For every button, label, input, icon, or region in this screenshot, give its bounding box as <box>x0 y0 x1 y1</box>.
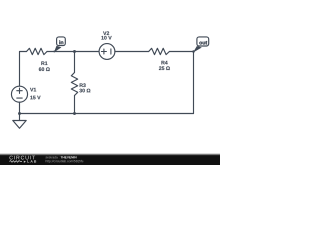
wire V1 bottom lead <box>19 102 21 113</box>
junction node R3 bottom <box>73 112 76 115</box>
flag in box <box>57 37 66 46</box>
label V2 value <box>101 36 111 40</box>
wire R1 to V2 <box>47 51 99 53</box>
label V2 name <box>103 31 109 35</box>
footer circuit name <box>60 156 76 158</box>
junction node R3 top <box>73 50 76 53</box>
flag out box <box>197 37 209 46</box>
flag out text <box>199 41 207 44</box>
ground symbol <box>13 114 26 129</box>
wire R3 bottom lead <box>74 96 76 114</box>
wire R4 to out node <box>169 51 193 53</box>
logo CIRCUIT <box>9 156 35 160</box>
label R1 name <box>41 61 47 65</box>
label R3 name <box>80 83 86 87</box>
voltage source V1 <box>11 86 27 102</box>
label V1 value <box>30 96 40 100</box>
wire bottom rail <box>20 113 194 115</box>
wire right side vertical <box>193 52 195 114</box>
resistor R4 <box>149 48 170 54</box>
logo arrow mark <box>24 161 26 163</box>
resistor R1 <box>27 48 48 54</box>
label V1 name <box>30 88 36 92</box>
resistor R3 <box>71 73 77 96</box>
label R4 name <box>161 61 167 65</box>
flag out pointer <box>193 46 202 53</box>
wire top-left corner down to V1 <box>20 52 27 87</box>
label R1 value <box>39 67 50 71</box>
junction node V1 bottom / ground <box>18 112 21 115</box>
voltage source V2 <box>99 44 115 60</box>
label R3 value <box>79 89 90 93</box>
flag in text <box>59 40 63 44</box>
flag in pointer <box>54 46 62 53</box>
label R4 value <box>159 66 170 70</box>
logo zigzag <box>9 161 22 163</box>
footer url <box>46 160 84 163</box>
footer user text <box>46 156 60 158</box>
wire V2 to R4 <box>115 51 149 53</box>
wire R3 top lead <box>74 52 76 73</box>
logo LAB <box>27 160 36 162</box>
footer black bar <box>0 156 220 166</box>
